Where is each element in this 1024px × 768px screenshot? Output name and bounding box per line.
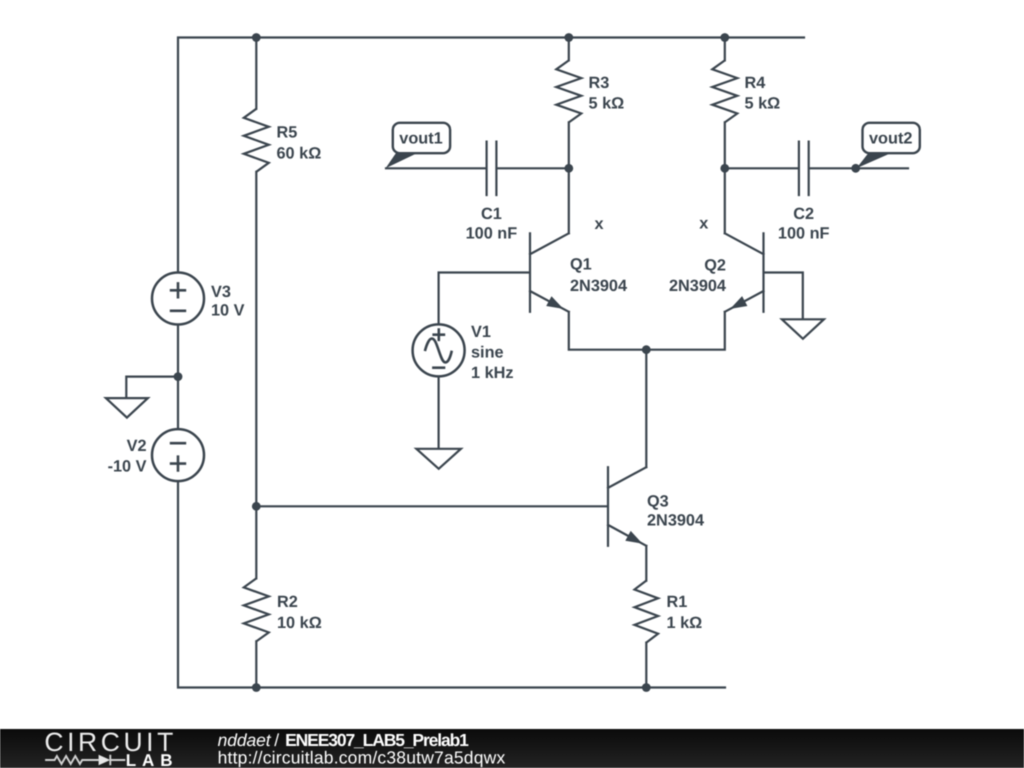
svg-text:R1: R1 xyxy=(667,593,688,611)
svg-text:2N3904: 2N3904 xyxy=(669,277,726,295)
svg-text:1 kΩ: 1 kΩ xyxy=(667,614,703,632)
svg-text:-10 V: -10 V xyxy=(108,458,147,476)
svg-text:60 kΩ: 60 kΩ xyxy=(277,145,322,163)
svg-text:http://circuitlab.com/c38utw7a: http://circuitlab.com/c38utw7a5dqwx xyxy=(218,747,506,767)
svg-text:2N3904: 2N3904 xyxy=(570,277,627,295)
svg-text:Q3: Q3 xyxy=(647,493,669,511)
svg-text:vout1: vout1 xyxy=(399,129,442,147)
svg-text:5 kΩ: 5 kΩ xyxy=(589,95,625,113)
svg-text:R2: R2 xyxy=(277,593,298,611)
svg-text:Q1: Q1 xyxy=(570,256,592,274)
svg-text:C2: C2 xyxy=(793,205,814,223)
svg-text:1 kHz: 1 kHz xyxy=(471,364,514,382)
svg-text:10 kΩ: 10 kΩ xyxy=(277,614,322,632)
svg-text:V2: V2 xyxy=(127,437,147,455)
svg-text:x: x xyxy=(699,215,708,233)
svg-text:10 V: 10 V xyxy=(211,302,245,320)
svg-text:2N3904: 2N3904 xyxy=(647,512,704,530)
svg-text:V3: V3 xyxy=(211,283,231,301)
svg-text:Q2: Q2 xyxy=(704,257,726,275)
svg-text:x: x xyxy=(594,215,603,233)
svg-text:100 nF: 100 nF xyxy=(466,225,518,243)
svg-text:vout2: vout2 xyxy=(869,129,912,147)
svg-text:R3: R3 xyxy=(589,74,610,92)
svg-text:LAB: LAB xyxy=(126,751,173,768)
svg-text:R4: R4 xyxy=(745,74,766,92)
svg-text:5 kΩ: 5 kΩ xyxy=(745,95,781,113)
svg-text:V1: V1 xyxy=(471,323,491,341)
svg-text:R5: R5 xyxy=(277,124,298,142)
svg-text:sine: sine xyxy=(471,344,504,362)
svg-text:100 nF: 100 nF xyxy=(778,225,830,243)
svg-text:C1: C1 xyxy=(481,205,502,223)
